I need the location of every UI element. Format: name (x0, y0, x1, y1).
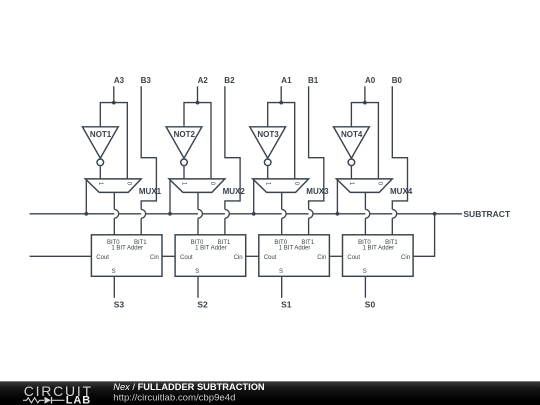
svg-text:Cout: Cout (96, 255, 109, 261)
wire NOT4 output to MUX input 1 (350, 166, 352, 179)
wire MUX4 output into U4 BIT0 (364, 218, 366, 235)
wire MUX1 select to SUBTRACT bus (85, 180, 87, 214)
wire A0 branch to NOT and MUX (351, 103, 378, 179)
wire A2 branch to NOT and MUX (184, 103, 211, 179)
svg-text:MUX4: MUX4 (390, 187, 413, 196)
wire A0 terminal (364, 86, 366, 102)
inverter NOT2 triangle (166, 127, 202, 158)
wire SUBTRACT bus (30, 213, 463, 215)
1-bit adder U2 box (175, 235, 246, 276)
wire MUX3 select to SUBTRACT bus (253, 180, 255, 214)
svg-text:Cout: Cout (180, 255, 193, 261)
wire MUX3 output hop over SUBTRACT bus (282, 209, 286, 218)
junction dot SUBTRACT feedback (433, 212, 437, 216)
wire B0 hop over SUBTRACT bus (392, 209, 396, 218)
wire MUX1 output into U1 BIT0 (113, 218, 115, 235)
wire S3 output (113, 276, 115, 298)
wire MUX4 output hop over SUBTRACT bus (365, 209, 369, 218)
svg-text:Cin: Cin (317, 255, 326, 261)
inverter NOT3 bubble (264, 159, 271, 166)
svg-text:NOT1: NOT1 (90, 130, 112, 139)
wire B0 down and around MUX4 (392, 86, 407, 209)
wire MUX2 output (197, 192, 199, 209)
svg-text:S: S (112, 269, 116, 275)
wire MUX1 output hop over SUBTRACT bus (114, 209, 118, 218)
wire Cin U1 to Cout U2 (162, 255, 175, 257)
junction dot MUX3 select on bus (252, 212, 256, 216)
svg-text:NOT4: NOT4 (341, 130, 363, 139)
svg-text:MUX3: MUX3 (306, 187, 329, 196)
svg-text:S0: S0 (365, 299, 376, 309)
wire Cout U1 stub (carry out) (30, 255, 92, 257)
1-bit adder U1 box (91, 235, 162, 276)
svg-text:1 BIT Adder: 1 BIT Adder (363, 246, 395, 252)
inverter NOT1 bubble (97, 159, 104, 166)
wire MUX3 output into U3 BIT0 (281, 218, 283, 235)
wire Cin U3 to Cout U4 (329, 255, 342, 257)
svg-text:S: S (279, 269, 283, 275)
svg-text:S3: S3 (114, 299, 125, 309)
svg-text:S: S (363, 269, 367, 275)
junction dot MUX2 select on bus (168, 212, 172, 216)
wire B1 into U3 BIT1 (308, 218, 310, 235)
wire B3 hop over SUBTRACT bus (141, 209, 145, 218)
svg-text:1 BIT Adder: 1 BIT Adder (195, 246, 227, 252)
inverter NOT4 bubble (348, 159, 355, 166)
svg-text:A0: A0 (365, 76, 376, 85)
junction dot A1 (279, 101, 283, 105)
mux MUX4 body (336, 179, 392, 193)
1-bit adder U3 box (259, 235, 330, 276)
wire B2 hop over SUBTRACT bus (225, 209, 229, 218)
wire NOT3 output to MUX input 1 (267, 166, 269, 179)
svg-text:B2: B2 (224, 76, 235, 85)
svg-text:Cout: Cout (264, 255, 277, 261)
mux MUX3 body (253, 179, 309, 193)
wire MUX2 select to SUBTRACT bus (169, 180, 171, 214)
svg-text:B3: B3 (141, 76, 152, 85)
svg-text:A3: A3 (114, 76, 125, 85)
wire A1 branch to NOT and MUX (268, 103, 295, 179)
svg-text:Cin: Cin (234, 255, 243, 261)
footer bar (0, 381, 540, 405)
wire A3 terminal (113, 86, 115, 102)
svg-text:A1: A1 (281, 76, 292, 85)
svg-text:NOT2: NOT2 (174, 130, 196, 139)
wire B0 into U4 BIT1 (391, 218, 393, 235)
wire NOT1 output to MUX input 1 (99, 166, 101, 179)
svg-text:Cout: Cout (347, 255, 360, 261)
inverter NOT3 triangle (250, 127, 286, 158)
svg-text:A2: A2 (198, 76, 209, 85)
wire Cin U2 to Cout U3 (246, 255, 259, 257)
svg-text:Cin: Cin (401, 255, 410, 261)
wire A3 branch to NOT and MUX (100, 103, 127, 179)
wire B1 hop over SUBTRACT bus (309, 209, 313, 218)
wire S1 output (281, 276, 283, 298)
wire B3 into U1 BIT1 (140, 218, 142, 235)
wire B2 into U2 BIT1 (224, 218, 226, 235)
junction dot A0 (363, 101, 367, 105)
svg-text:http://circuitlab.com/cbp9e4d: http://circuitlab.com/cbp9e4d (113, 393, 235, 404)
svg-text:Nex / FULLADDER SUBTRACTION: Nex / FULLADDER SUBTRACTION (113, 382, 265, 392)
svg-text:B0: B0 (392, 76, 403, 85)
inverter NOT2 bubble (181, 159, 188, 166)
wire MUX2 output hop over SUBTRACT bus (198, 209, 202, 218)
wire A1 terminal (280, 86, 282, 102)
svg-text:SUBTRACT: SUBTRACT (463, 209, 511, 219)
svg-text:S1: S1 (281, 299, 292, 309)
wire S0 output (364, 276, 366, 298)
junction dot A2 (196, 101, 200, 105)
wire SUBTRACT to Cin U4 (413, 214, 435, 256)
svg-text:MUX1: MUX1 (139, 187, 162, 196)
svg-text:S2: S2 (197, 299, 208, 309)
wire MUX4 output (364, 192, 366, 209)
wire MUX3 output (281, 192, 283, 209)
svg-text:1 BIT Adder: 1 BIT Adder (279, 246, 311, 252)
wire MUX1 output (113, 192, 115, 209)
wire S2 output (197, 276, 199, 298)
wire B1 down and around MUX3 (309, 86, 324, 209)
svg-text:Cin: Cin (150, 255, 159, 261)
svg-text:1 BIT Adder: 1 BIT Adder (111, 246, 143, 252)
svg-text:MUX2: MUX2 (223, 187, 246, 196)
inverter NOT1 triangle (82, 127, 118, 158)
wire B2 down and around MUX2 (225, 86, 240, 209)
junction dot MUX1 select on bus (84, 212, 88, 216)
svg-text:S: S (195, 269, 199, 275)
wire B3 down and around MUX1 (141, 86, 156, 209)
1-bit adder U4 box (343, 235, 414, 276)
svg-text:B1: B1 (308, 76, 319, 85)
wire MUX4 select to SUBTRACT bus (336, 180, 338, 214)
mux MUX2 body (169, 179, 225, 193)
CircuitLab logo resistor-diode line (23, 397, 65, 404)
svg-text:LAB: LAB (66, 394, 91, 405)
mux MUX1 body (85, 179, 141, 193)
wire NOT2 output to MUX input 1 (183, 166, 185, 179)
junction dot MUX4 select on bus (336, 212, 340, 216)
wire A2 terminal (197, 86, 199, 102)
wire MUX2 output into U2 BIT0 (197, 218, 199, 235)
svg-text:NOT3: NOT3 (257, 130, 279, 139)
inverter NOT4 triangle (334, 127, 370, 158)
junction dot A3 (112, 101, 116, 105)
